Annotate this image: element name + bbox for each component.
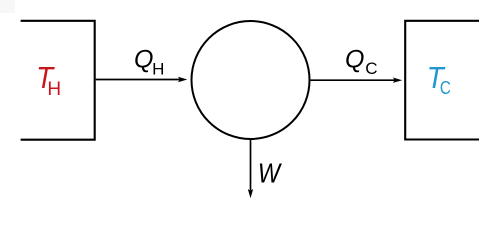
svg-text:C: C [365, 59, 377, 78]
svg-text:H: H [152, 60, 164, 79]
svg-text:H: H [47, 79, 61, 100]
svg-text:Q: Q [134, 45, 153, 73]
svg-text:Q: Q [345, 45, 364, 73]
svg-text:W: W [258, 158, 282, 189]
svg-text:C: C [440, 78, 451, 98]
